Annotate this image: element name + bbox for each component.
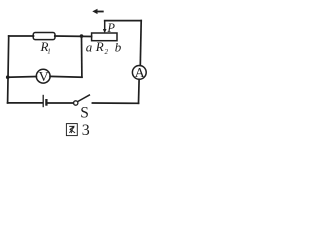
svg-text:V: V [39, 70, 49, 85]
svg-text:R: R [95, 39, 104, 54]
svg-text:b: b [115, 39, 122, 54]
wire left vertical [8, 36, 9, 103]
voltmeter V [36, 69, 50, 83]
svg-text:S: S [80, 104, 89, 121]
wire switch to bottom-right corner [92, 102, 138, 104]
wire wiper-top horizontal [105, 20, 142, 22]
wire voltmeter riser up to junction [81, 36, 83, 77]
caption 图 (drawn) [66, 124, 77, 136]
wire battery to switch [47, 102, 73, 104]
resistor R1 [33, 33, 55, 40]
battery cell short plate [45, 99, 47, 106]
switch S lever [78, 95, 90, 102]
wire right vertical upper (corner to ammeter) [139, 21, 142, 66]
svg-text:A: A [135, 66, 146, 81]
wire top-left to R1 [9, 35, 34, 37]
svg-text:a: a [86, 39, 93, 54]
svg-text:2: 2 [105, 48, 109, 56]
ammeter A [132, 66, 146, 80]
svg-text:1: 1 [47, 48, 51, 56]
resistor R2 (rheostat track) [92, 33, 117, 41]
svg-text:3: 3 [82, 122, 90, 139]
wire voltmeter branch left [8, 76, 37, 79]
svg-text:P: P [106, 20, 115, 35]
wire R1 to R2 [55, 35, 92, 38]
node junction top (R1/R2/V riser) [80, 34, 84, 38]
switch S pivot [74, 101, 78, 105]
node junction left (V branch) [6, 75, 10, 79]
wire right vertical lower (ammeter to corner) [138, 79, 141, 103]
wire bottom left segment [8, 102, 43, 104]
wiper P arrow [104, 21, 106, 30]
wire voltmeter to riser [50, 75, 82, 78]
arrow left (slide direction) [92, 9, 103, 14]
battery cell long plate [42, 95, 44, 107]
